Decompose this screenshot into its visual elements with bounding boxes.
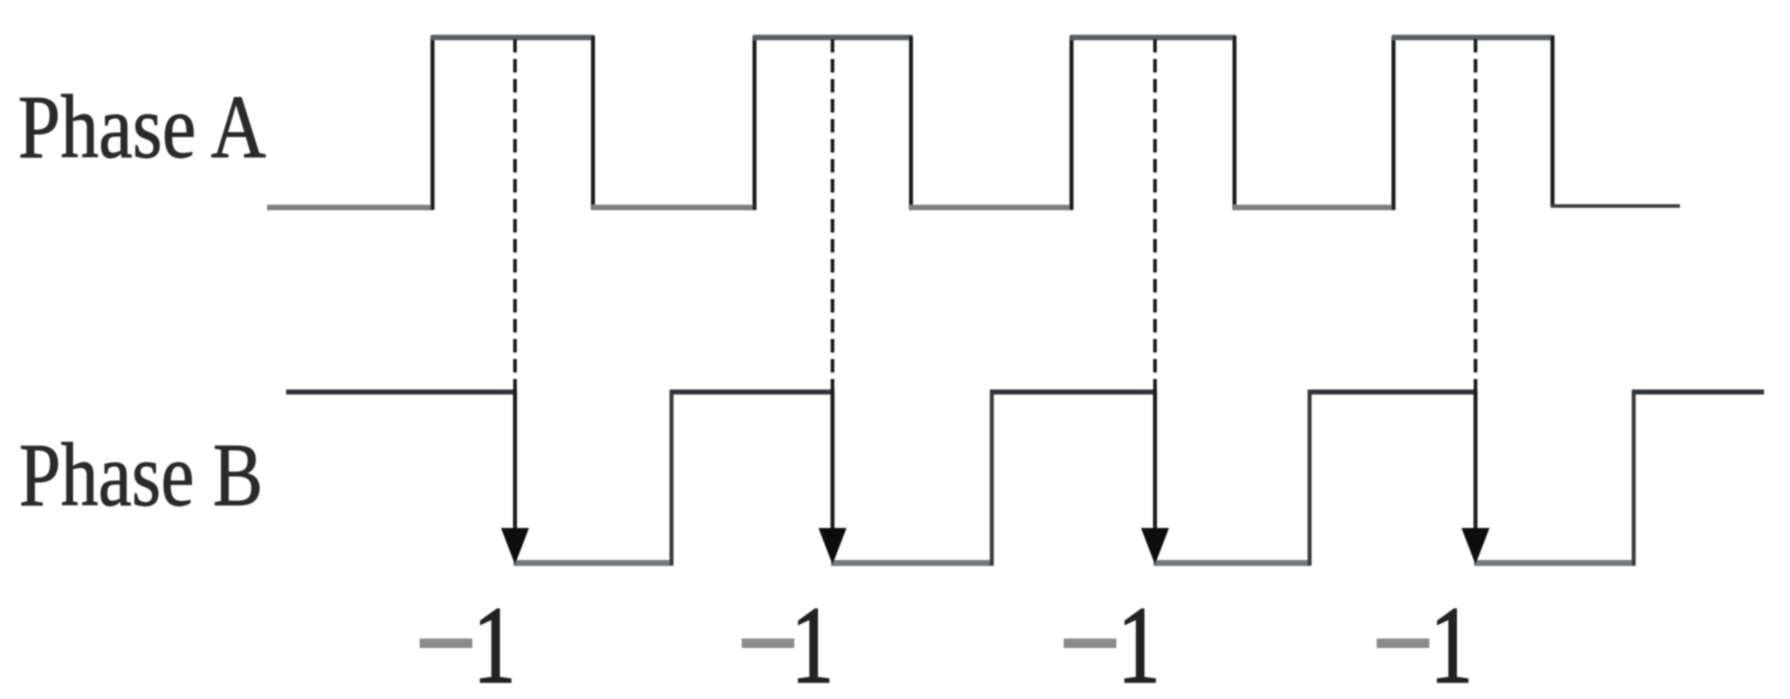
wire Phase B high segment 2 <box>670 390 834 395</box>
arrow 1 solid shaft <box>513 389 517 552</box>
wire Phase B low segment 1 <box>514 560 674 566</box>
arrow 3 dashed line <box>1153 39 1157 389</box>
wire Phase A rising edge 3 <box>1070 36 1074 210</box>
wire Phase A low segment 5 (final) <box>1551 204 1680 208</box>
wire Phase A rising edge 1 <box>431 36 435 210</box>
svg-text:Phase B: Phase B <box>19 426 263 525</box>
arrow 4 head <box>1462 528 1490 565</box>
wire Phase A rising edge 4 <box>1392 36 1396 210</box>
wire Phase A high segment 2 <box>753 35 913 41</box>
wire Phase A low segment 2 <box>592 205 757 211</box>
wire Phase A high segment 3 <box>1070 35 1236 41</box>
wire Phase B high segment 5 (final) <box>1632 390 1764 395</box>
wire Phase A high segment 1 <box>431 35 595 41</box>
wire Phase B rising edge 3 <box>1308 390 1312 566</box>
svg-text:1: 1 <box>1118 585 1161 699</box>
wire Phase B rising edge 2 <box>990 390 994 566</box>
wire Phase A high segment 4 <box>1392 35 1554 41</box>
wire Phase A rising edge 2 <box>753 36 757 210</box>
wire Phase B low segment 2 <box>831 560 994 566</box>
wire Phase B high segment 4 <box>1308 390 1477 395</box>
svg-text:1: 1 <box>1430 585 1473 699</box>
wire Phase B rising edge 1 <box>670 390 674 566</box>
arrow 2 head <box>819 528 847 565</box>
label -1 under arrow 2 (minus) <box>742 639 795 649</box>
wire Phase A low segment 1 <box>267 205 433 211</box>
svg-text:1: 1 <box>791 585 834 699</box>
wire Phase B low segment 4 <box>1474 560 1636 566</box>
arrow 2 solid shaft <box>831 389 835 552</box>
wire Phase A low segment 4 <box>1233 205 1395 211</box>
arrow 2 dashed line <box>831 39 835 389</box>
wire Phase B rising edge 4 <box>1632 390 1636 566</box>
arrow 1 dashed line <box>513 39 517 389</box>
arrow 4 solid shaft <box>1474 389 1478 552</box>
wire Phase A falling edge 3 <box>1233 36 1237 210</box>
wire Phase B low segment 3 <box>1154 560 1312 566</box>
arrow 3 head <box>1141 528 1169 565</box>
label -1 under arrow 3 (minus) <box>1064 639 1117 649</box>
wire Phase A falling edge 4 <box>1551 36 1555 207</box>
label -1 under arrow 4 (minus) <box>1377 639 1430 649</box>
wire Phase B high segment 3 <box>990 390 1157 395</box>
arrow 1 head <box>501 528 529 565</box>
wire Phase A low segment 3 <box>910 205 1074 211</box>
arrow 4 dashed line <box>1474 39 1478 389</box>
label -1 under arrow 1 (minus) <box>420 639 473 649</box>
arrow 3 solid shaft <box>1153 389 1157 552</box>
svg-text:1: 1 <box>473 585 516 699</box>
wire Phase A falling edge 2 <box>909 36 913 210</box>
wire Phase B high segment 1 <box>286 390 517 395</box>
svg-text:Phase A: Phase A <box>18 78 266 177</box>
wire Phase A falling edge 1 <box>591 36 595 210</box>
